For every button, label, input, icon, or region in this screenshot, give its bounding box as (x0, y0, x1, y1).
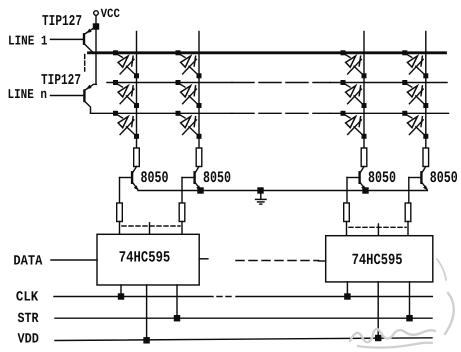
LED D34 (402, 111, 428, 139)
node rail/Q4 emitter (198, 188, 203, 193)
LED D22 (176, 80, 202, 108)
wire LINE n (8, 88, 85, 103)
LED D21 (113, 80, 139, 108)
resistor R3 (column 3) (361, 148, 367, 167)
wire U1 pin to STR (176, 285, 178, 318)
transistor Q6 8050 (NPN) (409, 167, 428, 204)
transistor Q4 8050 (NPN) (182, 167, 201, 204)
wire into U2 DS (319, 260, 326, 262)
wire row 3 (91, 112, 449, 114)
resistor R7 (Q5 base) (344, 203, 350, 222)
resistor R5 (Q3 base) (117, 203, 123, 222)
LED D23 (341, 80, 367, 108)
svg-text:8050: 8050 (368, 169, 396, 187)
wire VCC rail (95, 15, 97, 84)
node U1/VDD (144, 338, 149, 343)
wire row 1 (thick) (89, 51, 446, 54)
svg-text:VDD: VDD (18, 331, 39, 347)
transistor Q3 8050 (NPN) (120, 167, 139, 204)
wire column 3 (363, 32, 365, 149)
wire U2 pin to CLK (346, 282, 348, 297)
VCC terminal (94, 7, 121, 21)
wire LINE 1 (8, 35, 84, 50)
wire R6 to U1 (181, 222, 183, 235)
LED D14 (402, 50, 428, 78)
svg-text:8050: 8050 (141, 169, 169, 187)
svg-text:8050: 8050 (203, 169, 231, 187)
wire U1 pin to VDD (146, 285, 148, 340)
dashed link above U1 with center tick (122, 223, 180, 235)
ground (256, 191, 266, 205)
LED D31 (113, 111, 139, 139)
wire column 2 (198, 32, 200, 149)
transistor Q1 TIP127 (PNP) (84, 27, 96, 53)
node U2/STR (407, 316, 412, 321)
node U1/CLK (119, 294, 124, 299)
wire row 2 (107, 82, 447, 84)
wire column 1 (136, 32, 138, 149)
LED D11 (113, 50, 139, 78)
node rail/ground junction (258, 188, 263, 193)
LED D12 (176, 50, 202, 78)
node rail/Q5 emitter (363, 188, 368, 193)
node U2/VDD (376, 336, 381, 341)
IC U2 74HC595 (326, 236, 433, 282)
wire U2 pin to VDD (377, 282, 379, 338)
LED D24 (402, 80, 428, 108)
watermark (scan artifact) (350, 259, 454, 348)
wire VDD bus (18, 331, 433, 347)
IC U1 74HC595 (97, 234, 199, 285)
svg-text:CLK: CLK (16, 289, 39, 305)
transistor Q5 8050 (NPN) (347, 167, 366, 204)
svg-text:LINE 1: LINE 1 (8, 35, 48, 50)
wire STR bus (18, 311, 433, 327)
resistor R1 (column 1) (134, 148, 140, 167)
wire DATA (13, 253, 97, 269)
transistor Q2 TIP127 (PNP) (84, 84, 96, 113)
svg-text:8050: 8050 (430, 169, 458, 187)
wire column 4 (425, 32, 427, 149)
wire U1 QH' stub (199, 258, 208, 260)
svg-text:LINE n: LINE n (8, 88, 48, 103)
svg-text:VCC: VCC (101, 7, 121, 21)
LED D33 (341, 111, 367, 139)
wire emitter rail (138, 190, 427, 192)
node U1/STR (175, 316, 180, 321)
resistor R8 (Q6 base) (405, 203, 411, 222)
svg-text:TIP127: TIP127 (41, 72, 81, 89)
svg-text:74HC595: 74HC595 (119, 249, 171, 267)
LED D32 (176, 111, 202, 139)
resistor R2 (column 2) (196, 148, 202, 167)
svg-text:DATA: DATA (13, 253, 43, 269)
node U2/CLK (345, 294, 350, 299)
LED D13 (341, 50, 367, 78)
resistor R4 (column 4) (423, 148, 429, 167)
wire R7 to U2 (346, 222, 348, 236)
dashed continuation line (84, 55, 86, 72)
wire dashed data chain (236, 260, 319, 262)
wire U1 pin to CLK (120, 285, 122, 297)
svg-text:74HC595: 74HC595 (352, 251, 403, 269)
node rail/Q1 emitter junction (94, 24, 99, 29)
wire U2 pin to STR (409, 282, 411, 318)
svg-text:STR: STR (18, 311, 39, 327)
wire CLK bus (16, 289, 432, 305)
svg-text:TIP127: TIP127 (42, 13, 82, 30)
wire R5 to U1 (119, 222, 121, 235)
wire R8 to U2 (407, 222, 409, 236)
resistor R6 (Q4 base) (179, 203, 185, 222)
dashed link above U2 with center tick (349, 224, 406, 236)
